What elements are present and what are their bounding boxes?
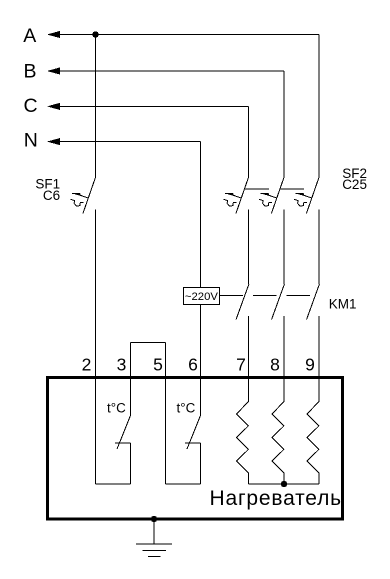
thermal contact t°C no.2 blade xyxy=(187,415,201,449)
contactor KM1 pole 3 blade xyxy=(307,284,320,319)
wire: SF2 pole 3 to KM1 pole 3 xyxy=(318,210,320,285)
wire: SF2 pole 1 to KM1 pole 1 xyxy=(248,210,250,285)
breaker SF2 mechanical linkage (dashed) xyxy=(245,188,311,190)
wire: terminal 3 riser to bridge xyxy=(130,343,132,416)
node: heater star junction dot xyxy=(281,481,287,487)
wire: phase line B horizontal xyxy=(49,70,284,72)
wire: coil to terminal 6 xyxy=(200,305,202,416)
breaker SF2 pole 1 release arrow xyxy=(224,193,242,206)
thermal contact t°C no.1 fixed contact bar xyxy=(115,442,130,444)
node: enclosure ground tap dot xyxy=(151,516,157,522)
wire: SF2 pole 2 to KM1 pole 2 xyxy=(283,210,285,285)
wire: terminal 5 riser and leg xyxy=(165,343,167,485)
resistor heater element 3 xyxy=(307,402,319,485)
wire: phase line C horizontal xyxy=(49,105,249,107)
svg-text:C25: C25 xyxy=(342,177,367,192)
wire: KM1 pole 3 to terminal 9 and heater xyxy=(318,316,320,401)
arrow on line A xyxy=(47,31,60,38)
wire: KM1 pole 2 to terminal 8 and heater xyxy=(283,316,285,401)
arrow on line B xyxy=(47,67,60,74)
svg-text:5: 5 xyxy=(153,355,163,375)
svg-text:N: N xyxy=(24,130,38,152)
wire: phase line A horizontal xyxy=(49,34,319,36)
thermal contact t°C no.2 fixed contact bar xyxy=(185,442,200,444)
svg-text:C6: C6 xyxy=(43,188,60,203)
svg-text:C: C xyxy=(24,95,38,117)
svg-text:6: 6 xyxy=(188,355,198,375)
svg-text:8: 8 xyxy=(270,355,280,375)
breaker SF2 pole 2 release arrow xyxy=(259,193,277,206)
wire: line C down to SF2 pole 1 xyxy=(248,106,250,177)
wire: line A right turn down to SF2 pole 3 xyxy=(318,35,320,178)
breaker SF1 release arrow xyxy=(71,193,89,206)
wire: neutral line N horizontal xyxy=(49,141,201,143)
wire: t°C no.2 to U2 bottom xyxy=(200,443,202,484)
svg-text:B: B xyxy=(24,61,37,83)
breaker SF1 contact blade xyxy=(83,177,96,213)
heater enclosure box xyxy=(48,378,343,520)
breaker SF2 pole 3 contact blade xyxy=(306,177,319,213)
wire: SF1 to terminal 2 xyxy=(95,210,97,485)
wire: line B down to SF2 pole 2 xyxy=(283,71,285,177)
wire: heater star bus xyxy=(249,483,320,485)
svg-text:7: 7 xyxy=(236,355,246,375)
resistor heater element 1 xyxy=(237,402,249,485)
svg-text:3: 3 xyxy=(117,355,127,375)
arrow on line N xyxy=(47,138,60,145)
svg-text:9: 9 xyxy=(305,355,315,375)
breaker SF2 pole 3 release arrow xyxy=(294,193,312,206)
svg-text:KM1: KM1 xyxy=(329,296,357,311)
svg-text:t°C: t°C xyxy=(107,400,126,415)
contactor KM1 linkage from coil (dashed) xyxy=(220,295,314,297)
wire: U2 bottom loop xyxy=(166,483,201,485)
svg-text:t°C: t°C xyxy=(177,400,196,415)
wire: U1 bottom loop xyxy=(96,483,131,485)
breaker SF2 pole 2 contact blade xyxy=(271,177,284,213)
svg-text:~220V: ~220V xyxy=(185,291,218,303)
wire: KM1 pole 1 to terminal 7 and heater xyxy=(248,316,250,401)
breaker SF2 pole 1 contact blade xyxy=(236,177,249,213)
wire: line A tap down to SF1 xyxy=(95,35,97,178)
coil KM1 box ~220V xyxy=(183,288,219,305)
svg-text:A: A xyxy=(23,25,36,47)
svg-text:2: 2 xyxy=(82,355,92,375)
thermal contact t°C no.1 blade xyxy=(117,415,131,449)
arrow on line C xyxy=(47,103,60,110)
contactor KM1 pole 1 blade xyxy=(236,284,249,319)
wire: line N down to coil KM1 xyxy=(200,142,202,288)
ground xyxy=(136,519,172,557)
svg-text:Нагреватель: Нагреватель xyxy=(210,487,342,510)
wire: t°C no.1 to U1 bottom xyxy=(130,443,132,484)
resistor heater element 2 xyxy=(272,402,284,485)
contactor KM1 pole 2 blade xyxy=(272,284,285,319)
wire: bridge between terminals 3 and 5 xyxy=(131,342,166,344)
node: junction dot on line A at SF1 tap xyxy=(92,31,98,37)
